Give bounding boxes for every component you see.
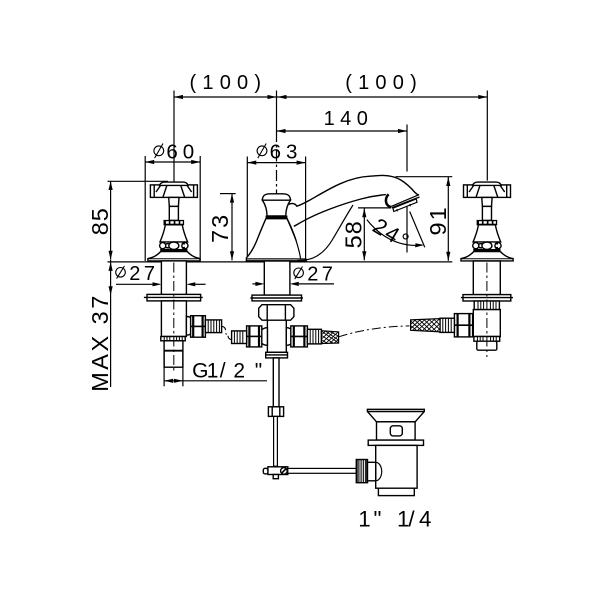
lever clamp block xyxy=(268,467,288,475)
right valve body xyxy=(473,310,500,337)
drain knurled nut xyxy=(356,460,367,483)
drain lower body xyxy=(376,445,417,488)
handle arm bar xyxy=(150,185,197,198)
dimension G1/2 xyxy=(164,380,267,382)
svg-text:27: 27 xyxy=(129,263,158,285)
spout top edge xyxy=(289,175,419,206)
spout end cap crescent (thick) xyxy=(386,194,391,207)
extension lines dia63 pedestal xyxy=(246,157,248,262)
lever clamp screw xyxy=(281,468,288,475)
centre line spout outlet (vertical, for 24 deg) xyxy=(406,196,408,253)
dimension 85 vertical xyxy=(110,181,112,260)
centre unit mounting washer xyxy=(252,295,302,301)
extension line 73 top xyxy=(220,193,236,195)
collar ring (dark) xyxy=(164,220,184,224)
24 deg angle arc xyxy=(367,220,422,246)
label dia 60 xyxy=(154,146,164,156)
left valve G1/2 tailpiece xyxy=(164,341,183,367)
handle webs xyxy=(156,185,161,192)
svg-text:27: 27 xyxy=(307,264,336,286)
svg-text:91: 91 xyxy=(425,205,451,235)
extension line 58 top xyxy=(358,207,391,209)
drain rod connector xyxy=(368,462,376,481)
label dia 63 xyxy=(257,146,267,156)
right valve cross-handle and bonnet (mirror of left) xyxy=(461,182,513,261)
svg-text:MAX 37: MAX 37 xyxy=(87,293,113,392)
svg-text:(100): (100) xyxy=(345,72,423,94)
centre unit below-deck shank xyxy=(264,261,290,295)
left valve hose nipple xyxy=(205,320,221,333)
right valve compression nut xyxy=(454,314,472,337)
centre unit body column xyxy=(267,320,286,352)
extension line left valve centre (100) xyxy=(173,91,175,182)
left valve compression nut xyxy=(191,316,206,338)
right valve hose nipple xyxy=(440,318,454,332)
lever clamp left cap xyxy=(263,468,268,474)
right valve centre line below deck xyxy=(486,263,488,358)
extension lines dia60 left valve xyxy=(144,156,146,261)
centre unit left nipple xyxy=(232,331,247,344)
extension line dia63 right (over spout) xyxy=(305,157,307,262)
centre unit right compression nut xyxy=(291,326,308,347)
centre line of pedestal (dash-dot) xyxy=(276,131,278,261)
left valve mounting washer xyxy=(147,294,201,301)
pedestal right profile xyxy=(287,219,301,260)
svg-text:63: 63 xyxy=(270,140,303,163)
dimension 73 vertical xyxy=(231,194,233,261)
svg-text:60: 60 xyxy=(166,140,199,163)
bell base xyxy=(148,252,200,261)
label dia 27 centre xyxy=(294,268,304,278)
deck reference line xyxy=(108,261,453,263)
drain tailpiece xyxy=(378,488,414,495)
extension line 91 top xyxy=(396,176,453,178)
left valve outlet boss xyxy=(186,317,195,336)
dimension line 140 xyxy=(277,130,408,132)
centre unit right nipple xyxy=(307,329,321,344)
svg-text:1"1/4: 1"1/4 xyxy=(358,507,431,532)
lift rod lower thin rod xyxy=(274,416,278,466)
flexible hose break squiggle (left) xyxy=(222,326,226,330)
spout under edge (tube bottom to end cap) xyxy=(294,195,386,227)
centre unit right boss xyxy=(286,328,295,346)
right valve braided hose stub xyxy=(411,319,440,332)
label dia 27 left xyxy=(116,268,126,278)
centre unit bottom flange xyxy=(266,352,288,358)
horizontal pop-up rod xyxy=(288,468,356,473)
dimension dia27 left xyxy=(116,283,153,285)
svg-text:140: 140 xyxy=(324,108,374,130)
spout shoulder dive line xyxy=(297,205,353,260)
dimension 91 vertical xyxy=(447,177,449,261)
centre unit hex nut xyxy=(259,305,294,321)
lift rod coupling nut xyxy=(268,407,283,417)
svg-text:85: 85 xyxy=(87,207,113,235)
extension line 140 at spout outlet xyxy=(406,125,408,172)
handle stem xyxy=(169,197,179,206)
24 deg angle leg xyxy=(410,212,425,248)
extension line centre unit (100)/140 xyxy=(276,91,278,132)
extension line right valve centre (100) xyxy=(486,91,488,181)
dimension dia27 centre xyxy=(252,283,255,285)
centre unit right braided hose stub xyxy=(321,331,338,344)
bead ring xyxy=(160,243,166,249)
pedestal bell of centre spout xyxy=(246,219,306,261)
svg-text:58: 58 xyxy=(341,220,367,248)
svg-text:(100): (100) xyxy=(190,72,268,94)
dimension line dia60 xyxy=(145,161,200,163)
left valve centre line below deck xyxy=(173,263,175,372)
left valve cross-handle and bonnet (above deck) xyxy=(148,182,200,261)
dimension line (100)+(100) xyxy=(174,96,487,98)
spout body (white fill, silhouette) xyxy=(289,175,420,226)
pop-up lift rod upper xyxy=(273,358,279,407)
svg-text:G1/2": G1/2" xyxy=(192,360,262,383)
left valve body xyxy=(161,301,186,337)
pedestal foot bottom edges (redrawn over spout fill) xyxy=(246,258,306,260)
centre unit left boss xyxy=(259,328,268,346)
aerator xyxy=(393,199,417,212)
right valve mounting washer xyxy=(463,295,511,301)
right valve collar ring xyxy=(474,301,499,310)
finial cap of pedestal xyxy=(262,194,290,200)
drain window xyxy=(390,426,402,436)
pop-up waste drain: funnel xyxy=(367,409,424,422)
left valve below-deck shank xyxy=(161,261,186,295)
pedestal black ring xyxy=(266,216,287,219)
right valve below-deck shank xyxy=(473,261,500,295)
dimension 58 vertical xyxy=(363,208,365,260)
dark band under beads xyxy=(161,249,187,251)
drain upper body xyxy=(377,422,416,440)
right valve step ring xyxy=(474,337,500,342)
flexible hose centre line (right, dash-dot) xyxy=(339,326,410,337)
dimension MAX 37 vertical xyxy=(110,260,112,387)
svg-text:24°: 24° xyxy=(368,213,415,255)
drain flange xyxy=(368,440,423,445)
dimension line dia63 xyxy=(247,162,305,164)
svg-text:73: 73 xyxy=(207,213,233,243)
spout mouth plate lines xyxy=(392,195,420,207)
handle cap xyxy=(160,182,188,185)
centre unit left compression nut xyxy=(247,326,262,347)
right valve inlet boss xyxy=(465,317,474,334)
lever clamp bottom tab xyxy=(273,475,278,479)
bonnet xyxy=(160,225,188,242)
pedestal waist xyxy=(262,200,290,216)
right valve tail plug xyxy=(477,341,497,350)
extension line 85 top xyxy=(108,180,169,182)
left valve step ring xyxy=(161,337,185,341)
extension lines G1/2 xyxy=(163,351,165,387)
